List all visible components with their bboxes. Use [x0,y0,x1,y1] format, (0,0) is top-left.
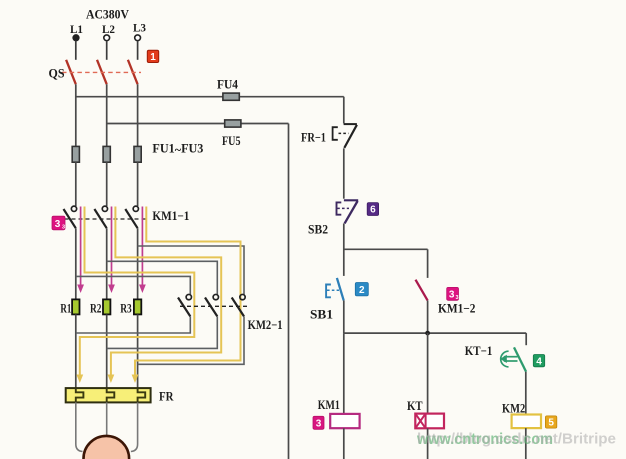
wire SB1 down [343,300,345,333]
wire phase2 below R2 [106,314,108,388]
svg-text:KT: KT [407,399,423,413]
coil KT [415,414,444,429]
wire KM1-2 to bus [427,300,429,333]
svg-text:1: 1 [150,52,156,63]
KM1-1 linkage dashed [65,218,149,220]
FR heater element 3 [138,388,146,402]
svg-text:R3: R3 [120,301,132,315]
wire L3 drop [137,41,139,60]
fuse FU4 [223,93,239,100]
junction dot [425,331,430,336]
wire KM1-2 drop [427,249,429,278]
svg-text:R1: R1 [60,301,71,315]
svg-text:FR−1: FR−1 [301,130,326,144]
switch QS linkage dashed [62,71,141,73]
wire KT-1 branch drop [525,333,527,345]
contactor KM2-1 pole1 [178,294,191,316]
svg-text:FU5: FU5 [222,134,241,148]
wire branch to KM1-2 [344,248,428,250]
wire phase3 mid [137,162,139,206]
thermal relay FR box [66,388,151,402]
svg-text:L1: L1 [70,22,83,36]
wire KM1 coil bottom [343,428,345,459]
wire KT-1 to KM2 [525,372,527,415]
FR heater element 1 [76,388,84,402]
wire to motor mid [106,402,108,437]
contact FR-1 [333,124,357,148]
svg-text:KM1−1: KM1−1 [152,209,189,223]
badge 3 bottom [313,416,324,429]
button SB1 [326,278,344,301]
bypass gray wire pole1 lower [76,316,191,333]
badge 6 [367,203,378,216]
wire phase2 to R2 [106,228,108,299]
svg-text:4: 4 [536,356,542,367]
switch QS pole 3 blade [128,60,138,84]
contact KM1-2 [416,280,428,301]
svg-text:3: 3 [316,419,322,430]
wire KT coil drop [427,333,429,414]
svg-text:3: 3 [449,290,455,301]
terminal L2 [104,35,110,41]
switch QS pole 2 blade [97,60,107,84]
svg-text:2: 2 [359,285,365,296]
coil KM2 [512,415,541,429]
svg-text:KT−1: KT−1 [465,344,493,358]
wire to motor left [76,402,83,451]
svg-text:SB1: SB1 [310,307,333,321]
badge 5 [545,416,556,429]
wire horizontal bus [344,332,526,334]
bypass gray wire pole2 lower [107,316,218,348]
current arrow phase1 magenta [77,207,84,294]
bypass gray wire pole3 upper [138,246,244,294]
contactor KM1-1 pole2 [94,206,107,228]
svg-text:KM2−1: KM2−1 [248,318,283,332]
svg-text:L3: L3 [133,21,146,35]
terminal L1 [73,35,79,41]
badge 3a left [52,216,65,230]
badge 1 [147,50,158,63]
wire KM2 coil bottom [525,428,527,459]
FR heater element 2 [107,388,115,402]
wire SB2 down [343,223,345,276]
KM2-1 linkage dashed [180,305,250,307]
badge 3b right [447,287,459,301]
fuse FU5 [225,120,241,127]
svg-text:KM1−2: KM1−2 [438,302,476,316]
svg-text:AC380V: AC380V [86,6,130,21]
wire L2 drop [106,41,108,60]
wire phase1 upper [75,84,77,146]
fuse FU2 [103,146,110,162]
contactor KM1-1 pole3 [125,206,138,228]
wire phase2 upper [106,84,108,146]
yellow arrow pole2 [108,375,115,384]
bypass gray wire pole3 lower [138,316,244,364]
wire L1 drop [75,41,77,60]
wire FR-1 to SB2 [343,148,345,198]
bypass yellow wire pole2 [111,207,221,376]
current arrow phase3 magenta [139,207,146,294]
badge 2 [355,283,368,297]
wire phase3 below R3 [137,314,139,388]
terminal L3 [135,35,141,41]
svg-text:R2: R2 [90,301,102,315]
wire control main drop [343,97,345,124]
fuse FU1 [72,146,79,162]
svg-text:FU1~FU3: FU1~FU3 [152,141,203,157]
svg-text:3: 3 [62,225,65,231]
svg-text:3: 3 [55,219,61,230]
contactor KM2-1 pole3 [232,294,245,316]
contact KT-1 [500,347,526,371]
bypass yellow wire pole3 [135,207,241,376]
bypass yellow wire pole1 [80,207,195,376]
resistor R2 [103,299,110,314]
resistor R1 [72,299,79,314]
svg-text:6: 6 [370,205,376,216]
fuse FU3 [134,146,141,162]
wire FU4 feed [76,96,344,98]
svg-text:http://blog.csdn.net/Britripe: http://blog.csdn.net/Britripe [417,431,616,448]
resistor R3 [134,299,141,314]
wire phase1 to R1 [75,228,77,299]
contactor KM2-1 pole2 [205,294,218,316]
svg-text:L2: L2 [102,22,115,36]
svg-text:SB2: SB2 [308,222,328,236]
wire phase1 below R1 [75,314,77,388]
contactor KM1-1 pole1 [64,206,77,228]
wire KT coil bottom [427,428,429,459]
bypass gray wire pole2 upper [107,261,218,294]
wire FU5 drop to bottom [288,124,290,459]
wire phase3 upper [137,84,139,146]
svg-text:QS: QS [49,65,65,80]
motor M [84,436,130,459]
wire phase2 mid [106,162,108,206]
svg-text:3: 3 [455,295,458,301]
yellow arrow pole1 [76,375,83,384]
wire phase1 mid [75,162,77,206]
svg-text:FU4: FU4 [217,78,239,92]
svg-text:KM2: KM2 [502,401,525,415]
svg-text:KM1: KM1 [318,398,340,412]
wire FU5 feed [107,123,289,125]
wire KM1 coil drop [343,333,345,414]
bypass gray wire pole1 upper [76,276,191,294]
current arrow phase2 magenta [108,207,115,294]
svg-text:5: 5 [548,418,554,429]
svg-text:FR: FR [159,390,174,404]
wire phase3 to R3 [137,228,139,299]
switch QS pole 1 blade [66,60,76,84]
badge 4 [533,355,544,368]
yellow arrow pole3 [132,375,139,384]
button SB2 [337,200,359,223]
wire to motor right [131,402,138,451]
coil KM1 [330,414,359,428]
